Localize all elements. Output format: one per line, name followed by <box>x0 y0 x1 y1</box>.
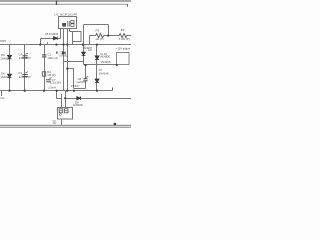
svg-text:10n (K): 10n (K) <box>59 54 67 57</box>
svg-text:PC817: PC817 <box>71 84 80 88</box>
svg-text:+12V adjust: +12V adjust <box>116 47 131 51</box>
svg-text:1M (P): 1M (P) <box>47 73 55 77</box>
svg-text:220u/25V: 220u/25V <box>19 56 31 60</box>
svg-text:1.8Ω (P): 1.8Ω (P) <box>119 37 130 41</box>
svg-text:R3: R3 <box>96 28 100 32</box>
svg-text:R2: R2 <box>121 28 125 32</box>
svg-text:1N4005: 1N4005 <box>0 75 10 79</box>
svg-text:1N4148: 1N4148 <box>99 71 109 75</box>
svg-text:1N4935: 1N4935 <box>101 60 111 64</box>
svg-text:1N4005: 1N4005 <box>0 56 10 60</box>
svg-text:D5 1N4005: D5 1N4005 <box>45 32 59 36</box>
svg-text:1.1u/16V: 1.1u/16V <box>50 81 61 85</box>
svg-text:1Ω (P): 1Ω (P) <box>95 37 103 41</box>
svg-text:NR5: NR5 <box>0 39 6 43</box>
svg-text:U1 NCP1014P: U1 NCP1014P <box>54 12 77 16</box>
svg-text:220u/25V: 220u/25V <box>19 75 31 79</box>
svg-text:100n (X): 100n (X) <box>47 56 58 60</box>
svg-text:2.5mH: 2.5mH <box>48 85 56 89</box>
svg-text:0804IDE: 0804IDE <box>100 55 110 58</box>
svg-text:1N5408: 1N5408 <box>73 103 83 107</box>
